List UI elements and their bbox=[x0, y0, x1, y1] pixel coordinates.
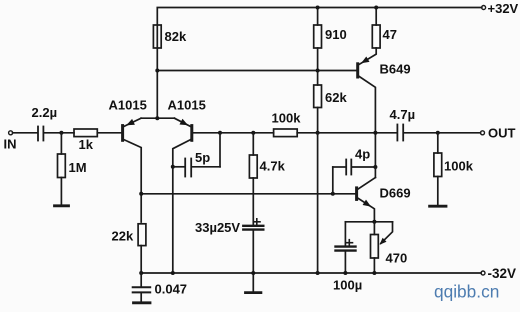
wire 1k to Q1 base bbox=[97, 132, 121, 134]
resistor R 62k bbox=[314, 85, 322, 108]
node dot rail 33u bbox=[251, 271, 255, 275]
node dot rail 100u bbox=[343, 271, 347, 275]
wire 100u bottom lead bbox=[344, 251, 346, 273]
svg-text:4.7µ: 4.7µ bbox=[390, 107, 416, 122]
wire 4p left branch up bbox=[332, 167, 334, 194]
resistor R 470 trimmer bbox=[371, 235, 379, 259]
transistor Q1 A1015 left bar bbox=[121, 126, 124, 141]
ground below 1M bbox=[55, 204, 69, 207]
transistor Q1 emitter bbox=[124, 118, 141, 126]
svg-text:47: 47 bbox=[383, 27, 397, 42]
capacitor C 4.7u plates bbox=[396, 125, 398, 141]
transistor Q4 emitter bbox=[358, 198, 375, 222]
svg-text:82k: 82k bbox=[165, 29, 187, 44]
svg-text:D669: D669 bbox=[380, 186, 411, 201]
node dot 4p rail bbox=[373, 165, 377, 169]
node dot H8 bbox=[372, 220, 376, 224]
arrow 470 wiper bbox=[380, 238, 387, 245]
node dot rail 62kline bbox=[316, 271, 320, 275]
wire 4p right to rail bbox=[352, 166, 375, 168]
wire H2 bus to B649 base bbox=[157, 70, 356, 72]
transistor Q3 B649 bar bbox=[356, 64, 359, 77]
node dot top rail 47 bbox=[374, 6, 378, 10]
transistor Q2 emitter bbox=[174, 118, 190, 126]
ground below 0.047 bbox=[134, 301, 151, 304]
transistor Q4 emitter arrow bbox=[363, 200, 371, 207]
svg-text:IN: IN bbox=[4, 137, 17, 152]
svg-text:1M: 1M bbox=[69, 160, 87, 175]
svg-text:+32V: +32V bbox=[488, 1, 519, 16]
capacitor C 33u25V plates bbox=[243, 225, 263, 227]
wire 47 bottom to B649 emitter bbox=[359, 48, 376, 65]
node dot 5p collector bbox=[171, 165, 175, 169]
wire 62k bottom lead bbox=[317, 108, 319, 133]
wire Q2 base to 5p node bbox=[193, 132, 220, 134]
transistor Q4 D669 bar bbox=[355, 188, 358, 200]
ground below 100k bbox=[430, 205, 446, 208]
svg-text:0.047: 0.047 bbox=[155, 282, 188, 297]
transistor Q2 emitter arrow bbox=[180, 119, 189, 126]
wire 4.7u to OUT bbox=[404, 132, 480, 134]
wire 910 top lead bbox=[317, 8, 319, 26]
terminal +32V circle bbox=[482, 6, 486, 10]
resistor R 82k bbox=[153, 25, 161, 48]
wire 1M top lead bbox=[60, 133, 62, 154]
node dot emitters bbox=[155, 116, 159, 120]
resistor R 47 bbox=[372, 25, 380, 48]
wire C1 to 1k bbox=[44, 132, 74, 134]
svg-text:B649: B649 bbox=[380, 62, 411, 77]
node dot Q2 base branch bbox=[218, 131, 222, 135]
capacitor 100u plus sign bbox=[346, 240, 352, 246]
wire 100k right to rail bbox=[297, 132, 396, 134]
node dot H2 82k bbox=[155, 69, 159, 73]
wire 5p right branch down bbox=[219, 133, 221, 167]
capacitor C 4p plates bbox=[345, 160, 347, 175]
terminal IN circle bbox=[9, 131, 13, 135]
transistor Q1 collector bbox=[124, 140, 142, 223]
capacitor 33u plus sign bbox=[254, 219, 260, 225]
resistor R 22k bbox=[138, 224, 146, 246]
svg-text:OUT: OUT bbox=[488, 126, 516, 141]
capacitor C1 2.2u plates bbox=[37, 127, 39, 141]
svg-text:1k: 1k bbox=[79, 137, 94, 152]
resistor R 910 bbox=[314, 25, 322, 48]
svg-text:33µ25V: 33µ25V bbox=[195, 220, 240, 235]
node dot 62k bottom bbox=[316, 131, 320, 135]
terminal OUT circle bbox=[481, 131, 485, 135]
node dot top rail 910 bbox=[316, 6, 320, 10]
wire IN to C1 bbox=[13, 132, 37, 134]
wire mid line Q2 base to output rail bbox=[220, 132, 274, 134]
svg-text:22k: 22k bbox=[112, 229, 134, 244]
wire 4.7k bottom to 33u bbox=[252, 178, 254, 226]
svg-text:A1015: A1015 bbox=[109, 98, 147, 113]
svg-text:qqibb.cn: qqibb.cn bbox=[434, 281, 499, 301]
wire 47 top lead bbox=[375, 8, 377, 26]
wire 33u bottom to rail and ground bbox=[252, 230, 254, 292]
capacitor C 100u plates bbox=[336, 245, 356, 247]
ground below 33u bbox=[246, 291, 261, 294]
transistor Q3 B649 collector bbox=[359, 76, 376, 167]
svg-text:4p: 4p bbox=[355, 147, 370, 162]
node dot OUT 100k bbox=[436, 131, 440, 135]
wire H7 Q1 collector to D669 base bbox=[141, 193, 355, 195]
wire common emitters bbox=[141, 117, 174, 119]
terminal -32V circle bbox=[481, 271, 485, 275]
wire 910 bottom lead bbox=[317, 48, 319, 85]
node dot input/1M bbox=[59, 131, 63, 135]
capacitor C 5p plates bbox=[184, 159, 186, 177]
svg-text:A1015: A1015 bbox=[168, 98, 206, 113]
capacitor C 0.047 plates bbox=[133, 286, 151, 288]
resistor R 100k feedback bbox=[274, 129, 298, 137]
node dot H7 4p branch bbox=[331, 192, 335, 196]
wire 470 bottom lead bbox=[373, 258, 375, 273]
svg-text:2.2µ: 2.2µ bbox=[32, 105, 58, 120]
wire 1M bottom lead bbox=[60, 178, 62, 206]
transistor Q1 emitter arrow bbox=[126, 119, 135, 125]
wire top +32V rail bbox=[157, 8, 482, 49]
wire 100k right top lead bbox=[437, 133, 439, 153]
wire 22k bottom lead bbox=[140, 246, 142, 288]
transistor Q2 collector bbox=[173, 140, 191, 274]
node dot H2 910/62k bbox=[316, 69, 320, 73]
wire 5p right horizontal bbox=[192, 166, 220, 168]
svg-text:5p: 5p bbox=[195, 150, 210, 165]
svg-text:470: 470 bbox=[386, 251, 408, 266]
wire 100u top lead bbox=[344, 222, 346, 247]
node dot 4.7k top bbox=[251, 131, 255, 135]
wire 5p left to Q2 collector bbox=[173, 166, 184, 168]
wire 0.047 bottom lead bbox=[140, 292, 142, 302]
transistor Q2 A1015 right bar bbox=[190, 126, 193, 141]
svg-text:100k: 100k bbox=[272, 111, 302, 126]
resistor R 100k load bbox=[434, 153, 442, 177]
wire H8 emitter bus bbox=[345, 221, 392, 223]
wire 62k line down bbox=[317, 133, 319, 273]
node dot rail q2col bbox=[171, 271, 175, 275]
node dot H7 left bbox=[139, 192, 143, 196]
wire 100k right bottom lead bbox=[437, 177, 439, 206]
svg-text:100µ: 100µ bbox=[333, 278, 362, 293]
node dot rail left corner bbox=[139, 271, 143, 275]
wire 82k bottom to emitters node bbox=[156, 48, 158, 118]
svg-text:100k: 100k bbox=[444, 159, 474, 174]
svg-text:62k: 62k bbox=[325, 90, 347, 105]
node dot rail 470 bbox=[372, 271, 376, 275]
svg-text:910: 910 bbox=[325, 27, 347, 42]
wire 470 top lead bbox=[373, 222, 375, 235]
node dot rail mid bbox=[373, 131, 377, 135]
svg-text:-32V: -32V bbox=[488, 266, 517, 281]
transistor Q4 collector bbox=[358, 178, 376, 190]
transistor Q3 B649 emitter arrow bbox=[361, 57, 370, 64]
resistor R 1k bbox=[74, 129, 97, 137]
resistor R 1M bbox=[58, 154, 66, 178]
wire 470 wiper branch bbox=[381, 222, 393, 244]
svg-text:4.7k: 4.7k bbox=[260, 159, 286, 174]
resistor R 4.7k bbox=[252, 133, 254, 155]
wire bottom -32V rail bbox=[141, 272, 481, 274]
